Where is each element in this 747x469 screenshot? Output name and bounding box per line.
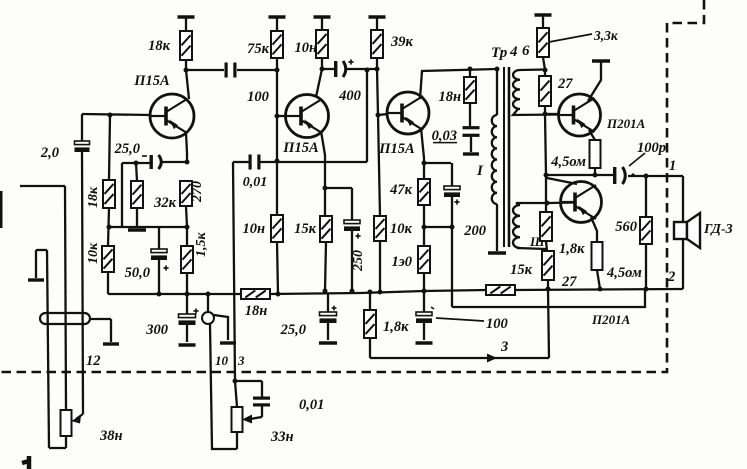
svg-text:П201А: П201А: [591, 312, 631, 327]
svg-text:100р: 100р: [637, 140, 666, 156]
svg-text:10к: 10к: [86, 242, 101, 264]
svg-text:10: 10: [215, 353, 229, 368]
svg-text:1,8к: 1,8к: [383, 319, 409, 335]
svg-text:1,5к: 1,5к: [194, 232, 209, 258]
svg-text:18к: 18к: [86, 186, 101, 208]
svg-text:4,5ом: 4,5ом: [550, 154, 586, 170]
svg-text:38н: 38н: [99, 428, 123, 444]
svg-text:ГД-3: ГД-3: [703, 222, 733, 237]
svg-text:18к: 18к: [148, 38, 171, 54]
svg-text:100: 100: [247, 89, 269, 105]
svg-text:47к: 47к: [389, 182, 413, 198]
svg-text:50,0: 50,0: [125, 265, 150, 281]
svg-text:32к: 32к: [153, 195, 177, 211]
svg-text:15к: 15к: [294, 221, 317, 237]
svg-text:Тр: Тр: [491, 45, 508, 61]
svg-text:3: 3: [237, 353, 245, 368]
svg-text:18н: 18н: [438, 89, 461, 105]
svg-text:27: 27: [557, 76, 573, 92]
svg-text:10н: 10н: [294, 40, 317, 56]
svg-text:1э0: 1э0: [391, 254, 412, 270]
svg-text:25,0: 25,0: [114, 141, 140, 157]
svg-text:0,03: 0,03: [432, 128, 457, 144]
svg-text:4: 4: [509, 44, 518, 60]
svg-text:75к: 75к: [247, 41, 270, 57]
svg-text:I: I: [476, 163, 484, 179]
svg-text:П15А: П15А: [282, 140, 319, 156]
svg-text:39к: 39к: [390, 34, 414, 50]
svg-text:400: 400: [338, 88, 361, 104]
svg-text:П15А: П15А: [378, 141, 415, 157]
svg-text:2: 2: [667, 269, 675, 285]
svg-text:15к: 15к: [510, 262, 533, 278]
svg-text:0,01: 0,01: [243, 175, 268, 190]
svg-text:560: 560: [615, 219, 637, 235]
svg-text:27: 27: [561, 274, 577, 290]
svg-text:3,3к: 3,3к: [593, 28, 619, 43]
svg-text:1,8к: 1,8к: [559, 241, 585, 257]
svg-text:П201А: П201А: [606, 116, 646, 131]
svg-text:270: 270: [190, 181, 205, 203]
svg-text:10н: 10н: [242, 221, 265, 237]
svg-text:10к: 10к: [390, 221, 413, 237]
svg-text:33н: 33н: [270, 429, 294, 445]
svg-text:12: 12: [86, 353, 101, 369]
svg-text:1: 1: [669, 158, 676, 174]
svg-text:300: 300: [145, 322, 168, 338]
svg-text:2,0: 2,0: [40, 145, 59, 161]
svg-text:4,5ом: 4,5ом: [606, 265, 642, 281]
svg-text:100: 100: [486, 316, 508, 332]
svg-text:0,01: 0,01: [299, 397, 324, 413]
svg-text:3: 3: [500, 339, 508, 355]
svg-text:250: 250: [351, 250, 366, 272]
svg-text:П15А: П15А: [133, 73, 170, 89]
svg-text:25,0: 25,0: [280, 322, 306, 338]
svg-text:200: 200: [463, 223, 486, 239]
svg-text:18н: 18н: [245, 303, 268, 319]
svg-text:6: 6: [522, 43, 530, 59]
